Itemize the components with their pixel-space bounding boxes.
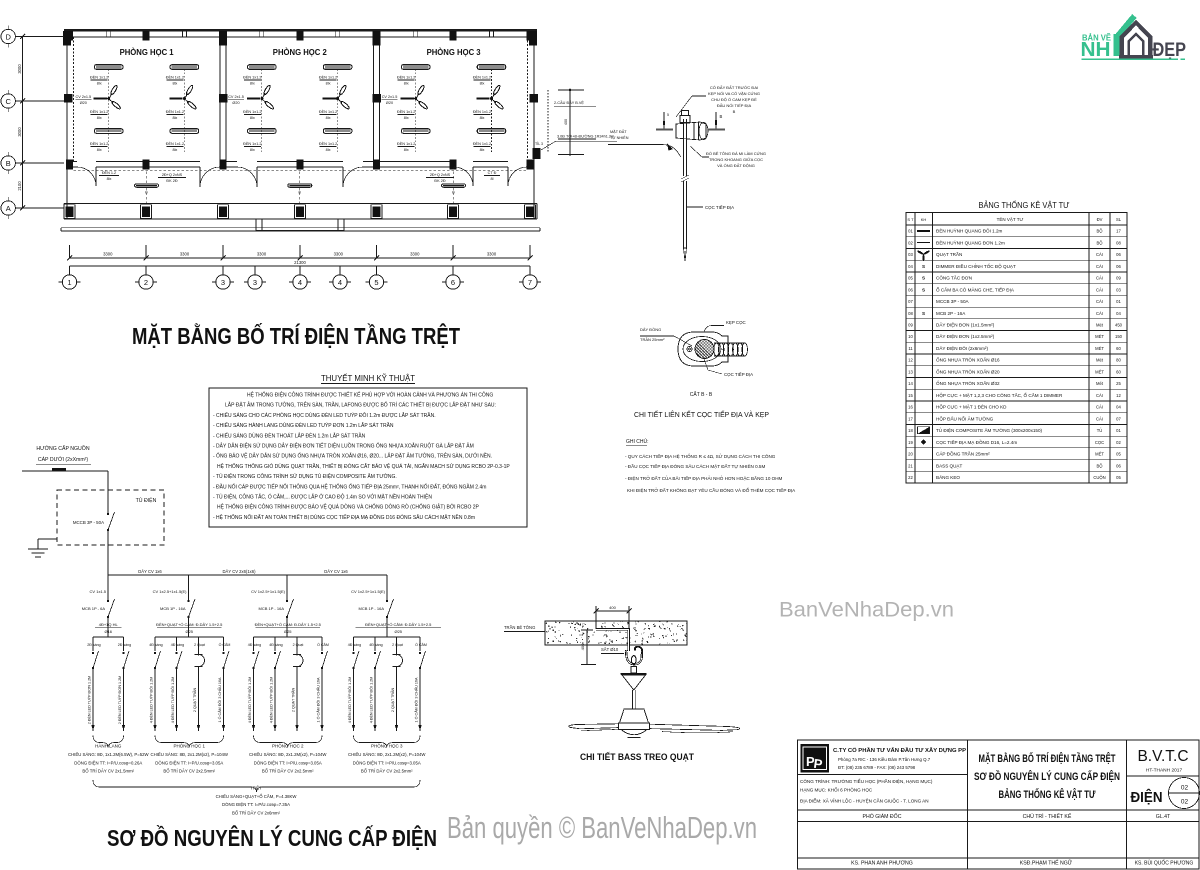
svg-text:03: 03 [908, 252, 913, 257]
svg-text:BỘ: BỘ [1096, 240, 1103, 245]
wire main drop [107, 471, 109, 514]
svg-text:60: 60 [1116, 346, 1121, 351]
svg-text:BỘ: BỘ [1096, 463, 1103, 468]
branch breaker 2 [187, 600, 189, 602]
branch wire 2 [188, 575, 190, 601]
svg-text:KSĐ.PHẠM THẾ NGỮ: KSĐ.PHẠM THẾ NGỮ [1020, 860, 1073, 867]
svg-text:ĐÈN 1x1.2: ĐÈN 1x1.2 [473, 109, 491, 114]
svg-text:ĐÈN 1x1.2: ĐÈN 1x1.2 [166, 109, 184, 114]
svg-text:S: S [922, 264, 925, 269]
load wire 3.2 [274, 668, 276, 731]
svg-text:ĐÈN 1x1.2: ĐÈN 1x1.2 [166, 75, 184, 80]
svg-text:8lx: 8lx [250, 82, 255, 86]
svg-text:3300: 3300 [257, 252, 267, 257]
svg-text:4 ĐÈN LED TUÝP ĐÔI 1.2M: 4 ĐÈN LED TUÝP ĐÔI 1.2M [369, 677, 374, 724]
svg-text:BẢNG THỐNG KÊ VẬT TƯ: BẢNG THỐNG KÊ VẬT TƯ [999, 787, 1097, 801]
svg-text:S T: S T [907, 217, 914, 222]
svg-text:CỌC: CỌC [1095, 440, 1104, 445]
svg-text:ĐK 2Đ: ĐK 2Đ [166, 179, 177, 183]
switch 3.2 [274, 652, 276, 654]
circuit drop 2.4 [223, 637, 225, 651]
group brace 3 [254, 736, 323, 748]
svg-text:8lx: 8lx [404, 148, 409, 152]
conductor cross-section hatched [695, 340, 714, 359]
svg-text:A: A [6, 204, 11, 213]
fluorescent light bars room 1 [170, 65, 199, 70]
svg-text:- CHIẾU SÁNG HÀNH LANG DÙNG ĐÈ: - CHIẾU SÁNG HÀNH LANG DÙNG ĐÈN LED TUÝP… [213, 421, 394, 429]
svg-text:S: S [922, 287, 925, 292]
svg-text:Ổ CẮM: Ổ CẮM [219, 642, 231, 647]
svg-text:TỈL 3: TỈL 3 [535, 141, 543, 146]
svg-text:05: 05 [908, 276, 913, 281]
svg-text:MẶT BẰNG BỐ TRÍ ĐIỆN TẦNG TRỆT: MẶT BẰNG BỐ TRÍ ĐIỆN TẦNG TRỆT [979, 751, 1116, 765]
svg-text:8lx: 8lx [172, 116, 177, 120]
load wire 3.1 [253, 668, 255, 731]
svg-text:5: 5 [667, 113, 669, 117]
svg-text:8lx: 8lx [480, 82, 485, 86]
svg-text:TRONG KHOANG GIỮA CỌC: TRONG KHOANG GIỮA CỌC [709, 157, 763, 162]
corridor wiring dashed line [74, 169, 528, 171]
svg-text:CÔNG TRÌNH: TRƯỜNG TIỂU HỌC (P: CÔNG TRÌNH: TRƯỜNG TIỂU HỌC (PHẦN ĐIỆN, … [800, 777, 933, 784]
porch beam and columns row A [64, 203, 537, 205]
svg-text:2Đ sáng: 2Đ sáng [118, 643, 131, 647]
svg-text:01: 01 [908, 229, 913, 234]
svg-text:HƯỚNG CẤP NGUỒN: HƯỚNG CẤP NGUỒN [36, 445, 89, 452]
svg-text:3: 3 [253, 278, 257, 287]
svg-text:CV 2x1.5: CV 2x1.5 [228, 95, 244, 99]
clamp section outer body [678, 332, 728, 366]
svg-text:4Đ+1Q HL: 4Đ+1Q HL [99, 622, 119, 627]
hook tail curl [635, 647, 642, 654]
switch 4.4 [419, 652, 421, 654]
svg-text:ĐÈN+QUẠT+Ổ CẮM: Đ.DÂY 1.5+2.5: ĐÈN+QUẠT+Ổ CẮM: Đ.DÂY 1.5+2.5 [255, 622, 322, 627]
svg-text:CV 1x1.5: CV 1x1.5 [90, 589, 107, 594]
svg-text:DÂY ĐIỆN ĐƠN (1x2.5mm²): DÂY ĐIỆN ĐƠN (1x2.5mm²) [936, 332, 995, 339]
svg-text:CÔNG TẮC ĐƠN: CÔNG TẮC ĐƠN [936, 274, 972, 281]
ceiling fan Q5 [415, 69, 417, 152]
circuit drop 4.2 [374, 637, 376, 651]
svg-text:3300: 3300 [103, 252, 113, 257]
wall row B with door openings [67, 161, 77, 163]
svg-text:2 QUẠT TRẦN: 2 QUẠT TRẦN [193, 688, 197, 713]
svg-text:2: 2 [144, 278, 148, 287]
load wire 1.1 [92, 668, 94, 731]
circuit drop 4.4 [419, 637, 421, 651]
svg-text:- CHIẾU SÁNG DÙNG ĐÈN THOÁT LẮ: - CHIẾU SÁNG DÙNG ĐÈN THOÁT LẮP ĐÈN 1.2m… [213, 431, 366, 439]
svg-text:02: 02 [1116, 440, 1121, 445]
svg-text:05: 05 [1116, 452, 1121, 457]
svg-text:2100: 2100 [17, 181, 22, 191]
svg-text:ĐÈN 1x1.2: ĐÈN 1x1.2 [243, 109, 261, 114]
svg-text:CUỘN: CUỘN [1093, 475, 1105, 480]
svg-text:CÁI: CÁI [1096, 299, 1103, 304]
svg-text:KS. BÙI QUỐC PHƯƠNG: KS. BÙI QUỐC PHƯƠNG [1135, 860, 1194, 867]
svg-text:ĐIỆN: ĐIỆN [1131, 788, 1163, 806]
svg-text:HỘP CỰC + MẶT 1 ĐÈN CHO KD: HỘP CỰC + MẶT 1 ĐÈN CHO KD [936, 404, 1007, 410]
svg-text:ĐÈN 1x1.2: ĐÈN 1x1.2 [243, 75, 261, 80]
svg-text:DÒNG ĐIỆN TT: I=P/U.cosφ=7.35A: DÒNG ĐIỆN TT: I=P/U.cosφ=7.35A [222, 802, 290, 807]
svg-text:4 ĐÈN LED TUÝP ĐÔI 1.2M: 4 ĐÈN LED TUÝP ĐÔI 1.2M [149, 677, 154, 724]
svg-text:60: 60 [1116, 369, 1121, 374]
svg-text:8lx: 8lx [480, 148, 485, 152]
svg-text:Mét: Mét [1096, 358, 1104, 363]
svg-text:CV 2x1.5: CV 2x1.5 [75, 95, 91, 99]
svg-text:19: 19 [908, 440, 913, 445]
circuit drop 3.3 [296, 637, 298, 651]
table row 13 [906, 376, 1127, 378]
svg-text:Ổ CẮM: Ổ CẮM [415, 642, 427, 647]
svg-text:13: 13 [908, 369, 913, 374]
svg-text:400: 400 [564, 119, 568, 125]
svg-text:8lx: 8lx [250, 116, 255, 120]
outlet symbol 2.3 [198, 648, 200, 656]
svg-text:20: 20 [908, 452, 913, 457]
svg-text:CHIẾU SÁNG: 8Đ, 2x1.2M(x2), P=: CHIẾU SÁNG: 8Đ, 2x1.2M(x2), P=104W [151, 752, 229, 757]
circuit drop 2.2 [176, 637, 178, 651]
switch 1.1 [92, 652, 94, 654]
svg-text:KẸP NỐI VA CÓ VẶN CỨNG: KẸP NỐI VA CÓ VẶN CỨNG [708, 91, 760, 96]
svg-text:2 Quạt: 2 Quạt [194, 643, 205, 647]
sub bus 2 [155, 636, 224, 638]
svg-text:DÂY CV 1x6: DÂY CV 1x6 [138, 569, 162, 574]
svg-text:12: 12 [1116, 393, 1121, 398]
fan canopy cone [621, 673, 647, 675]
svg-text:ĐÈN 1x1.2: ĐÈN 1x1.2 [397, 141, 415, 146]
table row 15 [906, 400, 1127, 402]
svg-text:HỆ THỐNG ĐIỆN CÔNG TRÌNH ĐƯỢC: HỆ THỐNG ĐIỆN CÔNG TRÌNH ĐƯỢC BẢO VỆ QUÁ… [217, 503, 480, 511]
svg-text:- TỦ ĐIỆN, CÔNG TẮC, Ổ CẮM,...: - TỦ ĐIỆN, CÔNG TẮC, Ổ CẮM,... ĐƯỢC LẮP … [213, 493, 432, 501]
svg-text:LẮP ĐẶT ÂM TRONG TƯỜNG, TRÊN S: LẮP ĐẶT ÂM TRONG TƯỜNG, TRÊN SÀN, TRẦN, … [225, 401, 496, 409]
svg-text:CHU ĐỘ Ổ CAM KẸP ĐỂ: CHU ĐỘ Ổ CAM KẸP ĐỂ [711, 97, 757, 102]
ground rod [683, 119, 685, 176]
fluorescent light bars room 2 [323, 65, 352, 70]
switch 1.2 [122, 652, 124, 654]
svg-text:06: 06 [1116, 463, 1121, 468]
svg-text:09: 09 [908, 323, 913, 328]
svg-text:7: 7 [528, 278, 532, 287]
load wire 2.3 [198, 668, 200, 731]
svg-text:ỐNG NHỰA TRÒN XOẮN Ø32: ỐNG NHỰA TRÒN XOẮN Ø32 [936, 379, 1000, 386]
load wire 4.1 [353, 668, 355, 731]
circuit drop 4.3 [396, 637, 398, 651]
table row 20 [906, 459, 1127, 461]
svg-text:Ø20: Ø20 [80, 101, 87, 105]
svg-text:1 Ổ CẮM ĐÔI 3 CHẤU 16A: 1 Ổ CẮM ĐÔI 3 CHẤU 16A [316, 677, 321, 722]
clamp section inner [683, 337, 721, 362]
svg-text:2 Quạt: 2 Quạt [293, 643, 304, 647]
corridor light room 3 [442, 184, 466, 187]
svg-text:25: 25 [1116, 381, 1121, 386]
svg-text:17: 17 [908, 416, 913, 421]
svg-text:KS. PHAN ANH PHƯƠNG: KS. PHAN ANH PHƯƠNG [851, 861, 913, 867]
svg-text:ỐNG NHỰA TRÒN XOẮN Ø16: ỐNG NHỰA TRÒN XOẮN Ø16 [936, 356, 1000, 363]
svg-text:TỦ ĐIỆN COMPOSITE ÂM TƯỜNG (30: TỦ ĐIỆN COMPOSITE ÂM TƯỜNG (300x200x150) [936, 426, 1043, 433]
svg-text:ĐÈN+QUẠT+Ổ CẮM: Đ.DÂY 1.5+2.5: ĐÈN+QUẠT+Ổ CẮM: Đ.DÂY 1.5+2.5 [156, 622, 223, 627]
svg-text:CHI TIẾT BASS TREO QUẠT: CHI TIẾT BASS TREO QUẠT [580, 752, 694, 762]
svg-text:2 QUẠT TRẦN: 2 QUẠT TRẦN [391, 688, 395, 713]
table row 09 [906, 330, 1127, 332]
switch 3.1 [252, 652, 254, 654]
svg-text:21: 21 [908, 463, 913, 468]
branch wire 3 [286, 575, 288, 601]
svg-text:CÁP DƯỚI (2xXmm²): CÁP DƯỚI (2xXmm²) [38, 456, 89, 463]
svg-text:01: 01 [1116, 428, 1121, 433]
fan blade left far [581, 729, 619, 731]
svg-text:- TỦ ĐIỆN TRONG CÔNG TRÌNH SỬ: - TỦ ĐIỆN TRONG CÔNG TRÌNH SỬ DỤNG TỦ ĐI… [213, 472, 397, 480]
svg-text:DÒNG ĐIỆN TT: I=P/U.cosφ=3.05A: DÒNG ĐIỆN TT: I=P/U.cosφ=3.05A [155, 760, 223, 765]
table row 03 [906, 259, 1127, 261]
svg-text:ĐÈN 1x1.2: ĐÈN 1x1.2 [473, 75, 491, 80]
table row 19 [906, 447, 1127, 449]
svg-text:2Đ+Q 2xNS: 2Đ+Q 2xNS [430, 173, 451, 177]
table row 01 [906, 236, 1127, 238]
svg-text:ĐÈN 1x1.2: ĐÈN 1x1.2 [397, 75, 415, 80]
svg-text:SẮT Ø10: SẮT Ø10 [601, 647, 619, 652]
svg-text:Ø25: Ø25 [284, 629, 292, 634]
corridor light room 1 [135, 184, 159, 187]
switch 3.4 [321, 652, 323, 654]
floor plan: building outline [64, 29, 537, 32]
entry step [256, 219, 344, 231]
sub bus 4 [354, 636, 421, 638]
table row 21 [906, 470, 1127, 472]
svg-text:SL: SL [1116, 217, 1122, 222]
table row 02 [906, 247, 1127, 249]
svg-text:ĐK 2Đ: ĐK 2Đ [434, 179, 445, 183]
svg-text:CÁI: CÁI [1096, 416, 1103, 421]
table row 06 [906, 294, 1127, 296]
load wire 2.2 [176, 668, 178, 731]
circuit drop 3.4 [321, 637, 323, 651]
anchor bar Z shape [596, 629, 629, 651]
circuit drop 1.1 [92, 637, 94, 651]
svg-text:21300: 21300 [294, 260, 306, 265]
svg-text:ĐT: (08) 235 6789 - FAX: (08): ĐT: (08) 235 6789 - FAX: (08) 243 5798 [838, 765, 916, 770]
svg-text:04: 04 [908, 264, 913, 269]
svg-text:12: 12 [908, 358, 913, 363]
svg-text:Ø25: Ø25 [394, 629, 402, 634]
svg-text:MÉT: MÉT [1095, 334, 1104, 339]
svg-text:PHÒNG HỌC 1: PHÒNG HỌC 1 [120, 48, 175, 57]
svg-text:Đ: Đ [452, 191, 455, 195]
svg-text:Ø20: Ø20 [232, 101, 239, 105]
stranded conductor coil [714, 343, 720, 356]
svg-text:ĐÈN 1x1.2: ĐÈN 1x1.2 [90, 109, 108, 114]
svg-text:Phòng 7a RIC - 136 Kiều Đàm P.: Phòng 7a RIC - 136 Kiều Đàm P.Tân Hưng Q… [838, 757, 931, 762]
table row 12 [906, 365, 1127, 367]
svg-text:- ĐIỆN TRỞ ĐẤT CỦA BÃI TIẾP ĐỊ: - ĐIỆN TRỞ ĐẤT CỦA BÃI TIẾP ĐỊA PHẢI NHỎ… [625, 474, 783, 481]
branch wire 4 [386, 575, 388, 601]
outlet symbol 4.3 [396, 648, 398, 656]
switch 2.2 [175, 652, 177, 654]
load wire 4.4 [419, 668, 421, 731]
svg-text:ĐÈN 1x1.2: ĐÈN 1x1.2 [243, 141, 261, 146]
svg-text:CHIẾU SÁNG: 8Đ, 1x1.2M(6.5W),: CHIẾU SÁNG: 8Đ, 1x1.2M(6.5W), P=52W [68, 752, 150, 757]
svg-text:04: 04 [1116, 405, 1121, 410]
svg-text:TÊN VẬT TƯ: TÊN VẬT TƯ [997, 215, 1024, 222]
svg-text:QUẠT TRẦN: QUẠT TRẦN [936, 251, 962, 257]
left grid bubbles and dims [1, 29, 15, 43]
svg-text:ĐV: ĐV [1097, 217, 1103, 222]
svg-text:4Đ sáng: 4Đ sáng [269, 643, 282, 647]
svg-text:MCB 1P - 16A: MCB 1P - 16A [160, 606, 186, 611]
fluorescent light bars room 2 [248, 65, 276, 70]
svg-text:Ổ CẮM BA CÓ MÀNG CHE, TIẾP ĐỊA: Ổ CẮM BA CÓ MÀNG CHE, TIẾP ĐỊA [936, 285, 1015, 292]
window ticks top wall [106, 30, 108, 38]
svg-text:Mét: Mét [1096, 323, 1104, 328]
switch 4.1 [352, 652, 354, 654]
svg-text:GHI CHÚ:: GHI CHÚ: [626, 438, 649, 445]
svg-text:THUYẾT MINH KỸ THUẬT: THUYẾT MINH KỸ THUẬT [321, 373, 415, 383]
svg-text:CHIẾU SÁNG+QUẠT+Ổ CẮM, P=4.38K: CHIẾU SÁNG+QUẠT+Ổ CẮM, P=4.38KW [216, 794, 298, 799]
svg-text:PHÒNG HỌC 2: PHÒNG HỌC 2 [273, 48, 328, 57]
svg-text:4Đ sáng: 4Đ sáng [369, 643, 382, 647]
load wire 2.1 [154, 668, 156, 731]
svg-text:BỐ TRÍ DÂY CV 2x6mm²: BỐ TRÍ DÂY CV 2x6mm² [232, 810, 281, 815]
svg-text:Mét: Mét [1096, 381, 1104, 386]
svg-text:HỘP CỰC + MẶT 1,2,3 CHO CÔNG T: HỘP CỰC + MẶT 1,2,3 CHO CÔNG TẮC, Ổ CẮM … [936, 391, 1063, 398]
ceiling fan Q6 [491, 69, 493, 152]
svg-text:ĐÈN HUỲNH QUANG ĐÔI 1.2m: ĐÈN HUỲNH QUANG ĐÔI 1.2m [936, 228, 1003, 234]
svg-text:MÉT: MÉT [1095, 369, 1104, 374]
overall brace [93, 780, 420, 792]
table row 10 [906, 341, 1127, 343]
svg-text:8lx: 8lx [97, 148, 102, 152]
svg-text:2 ĐÈN LED TUÝP ĐƠN 1.2M: 2 ĐÈN LED TUÝP ĐƠN 1.2M [117, 676, 122, 725]
svg-text:ĐÈN HUỲNH QUANG ĐƠN 1.2m: ĐÈN HUỲNH QUANG ĐƠN 1.2m [936, 239, 1005, 245]
svg-text:3.0Đ TỐI+Đ-ĐƯỜNG 1R34h1.2m: 3.0Đ TỐI+Đ-ĐƯỜNG 1R34h1.2m [557, 134, 614, 139]
svg-text:TỦ ĐIỆN: TỦ ĐIỆN [136, 496, 157, 504]
svg-text:18: 18 [908, 428, 913, 433]
svg-text:B: B [720, 114, 723, 119]
load wire 1.2 [123, 668, 125, 731]
svg-text:3300: 3300 [487, 252, 497, 257]
svg-text:Ø16: Ø16 [104, 629, 112, 634]
svg-text:03: 03 [1116, 287, 1121, 292]
svg-text:15: 15 [908, 393, 913, 398]
svg-text:3000: 3000 [17, 64, 22, 74]
svg-text:MCB 1P - 16A: MCB 1P - 16A [259, 606, 285, 611]
sub bus 3 [254, 636, 323, 638]
svg-text:CV 1x2.5+1x1.5(E): CV 1x2.5+1x1.5(E) [351, 589, 386, 594]
svg-text:MÉT: MÉT [1095, 346, 1104, 351]
svg-text:CÁP ĐỒNG TRẦN 25mm²: CÁP ĐỒNG TRẦN 25mm² [936, 451, 990, 457]
svg-text:CÁI: CÁI [1096, 264, 1103, 269]
svg-text:3300: 3300 [410, 252, 420, 257]
svg-text:PHÒNG HỌC 2: PHÒNG HỌC 2 [272, 743, 304, 749]
svg-text:BanVeNhaDep.vn: BanVeNhaDep.vn [779, 598, 954, 622]
svg-text:1: 1 [67, 278, 71, 287]
svg-text:ĐÈN 1x1.2: ĐÈN 1x1.2 [319, 109, 337, 114]
svg-text:4: 4 [298, 278, 302, 287]
branch wire 1 [107, 575, 109, 601]
svg-text:8lx: 8lx [326, 148, 331, 152]
svg-text:4: 4 [338, 278, 342, 287]
svg-text:ĐÈN 1.2: ĐÈN 1.2 [102, 170, 116, 175]
svg-text:MCB 1P - 16A: MCB 1P - 16A [359, 606, 385, 611]
svg-text:CÁI: CÁI [1096, 405, 1103, 410]
svg-text:C: C [5, 97, 11, 106]
svg-text:3300: 3300 [334, 252, 344, 257]
svg-text:- DÂY DẪN ĐIỆN SỬ DỤNG DÂY ĐIỆ: - DÂY DẪN ĐIỆN SỬ DỤNG DÂY ĐIỆN ĐƠN TIẾT… [213, 442, 474, 450]
svg-text:BASS QUẠT: BASS QUẠT [936, 463, 962, 468]
svg-text:ĐẸP: ĐẸP [1153, 39, 1187, 61]
svg-text:4 ĐÈN LED TUÝP ĐÔI 1.2M: 4 ĐÈN LED TUÝP ĐÔI 1.2M [247, 677, 252, 724]
material table grid [906, 213, 1127, 484]
svg-text:CÓ ĐẤY ĐẤT TRƯỚC ĐAI: CÓ ĐẤY ĐẤT TRƯỚC ĐAI [710, 85, 758, 90]
fluorescent light bars room 1 [94, 65, 123, 70]
svg-text:ĐẤU NỐI TIẾP ĐỊA: ĐẤU NỐI TIẾP ĐỊA [717, 103, 752, 108]
svg-text:C.TY CỔ PHẦN TƯ VẤN ĐẦU TƯ XÂY: C.TY CỔ PHẦN TƯ VẤN ĐẦU TƯ XÂY DỰNG PP [833, 747, 966, 754]
svg-text:TỦ: TỦ [1097, 428, 1103, 433]
svg-text:5: 5 [374, 278, 378, 287]
outlet symbol 3.3 [296, 648, 298, 656]
svg-text:400: 400 [580, 643, 585, 650]
svg-text:1 Ổ CẮM ĐÔI 3 CHẤU 16A: 1 Ổ CẮM ĐÔI 3 CHẤU 16A [414, 677, 419, 722]
table row 17 [906, 423, 1127, 425]
hanger hook cup [626, 650, 642, 664]
group brace 2 [155, 736, 224, 748]
svg-text:TRẦN 25mm²: TRẦN 25mm² [640, 337, 665, 342]
svg-text:08: 08 [1116, 240, 1121, 245]
table row 04 [906, 271, 1127, 273]
svg-text:PHÒNG HỌC 3: PHÒNG HỌC 3 [371, 743, 403, 749]
svg-text:KH: KH [921, 217, 927, 222]
svg-text:8lx: 8lx [326, 82, 331, 86]
svg-text:DÒNG ĐIỆN TT: I=P/U.cosφ=3.05A: DÒNG ĐIỆN TT: I=P/U.cosφ=3.05A [254, 760, 322, 765]
distribution board TU DIEN dashed box [57, 490, 164, 545]
clamp bolt [687, 346, 692, 351]
svg-text:8lx: 8lx [172, 148, 177, 152]
load wire 4.2 [374, 668, 376, 731]
svg-text:HỆ THỐNG THÔNG GIÓ DÙNG QUẠT T: HỆ THỐNG THÔNG GIÓ DÙNG QUẠT TRẦN, THIẾT… [217, 462, 510, 470]
load wire 2.4 [223, 668, 225, 731]
svg-text:HT-THANH 2017: HT-THANH 2017 [1146, 768, 1183, 774]
svg-text:2 ĐÈN LED TUÝP ĐƠN 1.2M: 2 ĐÈN LED TUÝP ĐƠN 1.2M [87, 676, 92, 725]
svg-text:GL.4T: GL.4T [1156, 814, 1171, 820]
svg-text:2Đ sáng: 2Đ sáng [87, 643, 100, 647]
svg-text:DÂY ĐỒNG: DÂY ĐỒNG [640, 327, 661, 332]
svg-text:ĐÈN 1x1.2: ĐÈN 1x1.2 [90, 75, 108, 80]
svg-text:Ø20: Ø20 [386, 101, 393, 105]
switch 2.4 [222, 652, 224, 654]
hanger ring [631, 656, 636, 665]
svg-text:8lx: 8lx [404, 116, 409, 120]
svg-text:4Đ sáng: 4Đ sáng [149, 643, 162, 647]
group brace 1 [93, 736, 124, 748]
svg-text:4 ĐÈN LED TUÝP ĐÔI 1.2M: 4 ĐÈN LED TUÝP ĐÔI 1.2M [170, 677, 175, 724]
grid axis bubbles bottom [69, 266, 71, 275]
svg-text:08: 08 [908, 311, 913, 316]
svg-text:ĐÈN+QUẠT+Ổ CẮM: Đ.DÂY 1.5+2.5: ĐÈN+QUẠT+Ổ CẮM: Đ.DÂY 1.5+2.5 [365, 622, 432, 627]
svg-text:2Đ+Q 2xNS: 2Đ+Q 2xNS [162, 173, 183, 177]
svg-text:CỌC TIẾP ĐỊA: CỌC TIẾP ĐỊA [724, 372, 753, 377]
feed wire [22, 470, 108, 472]
porch apron edge [61, 227, 540, 229]
table row 14 [906, 388, 1127, 390]
svg-text:ĐỊA ĐIỂM: XÃ VĨNH LỘC - HUYỆN: ĐỊA ĐIỂM: XÃ VĨNH LỘC - HUYỆN CẦN GIUỘC … [800, 797, 929, 804]
svg-text:- ỐNG BẢO VỆ DÂY DẪN SỬ DỤNG Ố: - ỐNG BẢO VỆ DÂY DẪN SỬ DỤNG ỐNG NHỰA TR… [213, 452, 492, 460]
svg-text:PHÒNG HỌC 1: PHÒNG HỌC 1 [173, 743, 205, 749]
circuit drop 2.1 [154, 637, 156, 651]
concrete slab [545, 621, 687, 645]
rod clamp assembly [682, 111, 689, 116]
svg-text:14: 14 [908, 381, 913, 386]
fan blade right far [662, 732, 733, 733]
svg-text:ĐÈN 1x1.2: ĐÈN 1x1.2 [319, 75, 337, 80]
fan swivel block [631, 667, 637, 674]
svg-text:SƠ ĐỒ NGUYÊN LÝ CUNG CẤP ĐIỆN: SƠ ĐỒ NGUYÊN LÝ CUNG CẤP ĐIỆN [107, 824, 437, 851]
